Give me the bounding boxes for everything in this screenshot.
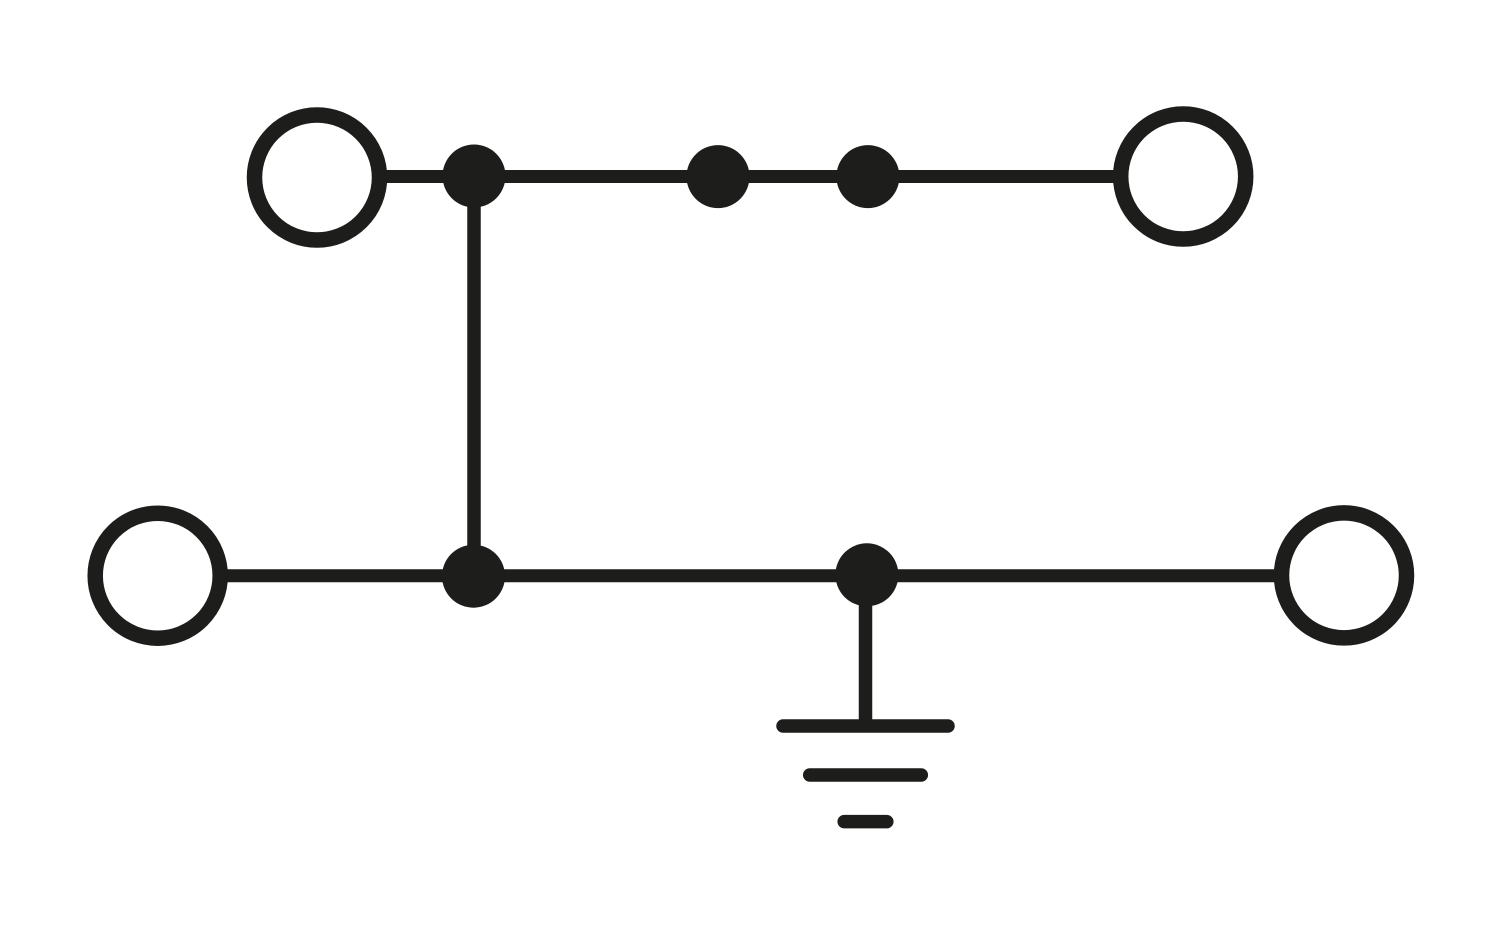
- wire ground stem: [859, 575, 873, 726]
- terminal circle top-left: [255, 115, 380, 240]
- ground bar 2: [810, 768, 922, 782]
- wire top rail: [382, 170, 1118, 183]
- junction node bottom-right (ground tap): [835, 543, 898, 606]
- junction node bottom-left (vertical wire meets bottom rail): [442, 545, 505, 608]
- wire vertical between rails: [467, 176, 481, 576]
- node dot mid-left on top rail: [687, 145, 750, 208]
- junction node top (tap to vertical wire): [443, 145, 506, 208]
- terminal circle top-right: [1121, 114, 1246, 239]
- ground bar 1: [783, 719, 948, 733]
- node dot mid-right on top rail: [836, 145, 899, 208]
- wire bottom rail: [224, 569, 1278, 582]
- ground bar 3: [844, 815, 887, 829]
- terminal circle bottom-left: [95, 513, 220, 638]
- terminal circle bottom-right: [1282, 513, 1407, 638]
